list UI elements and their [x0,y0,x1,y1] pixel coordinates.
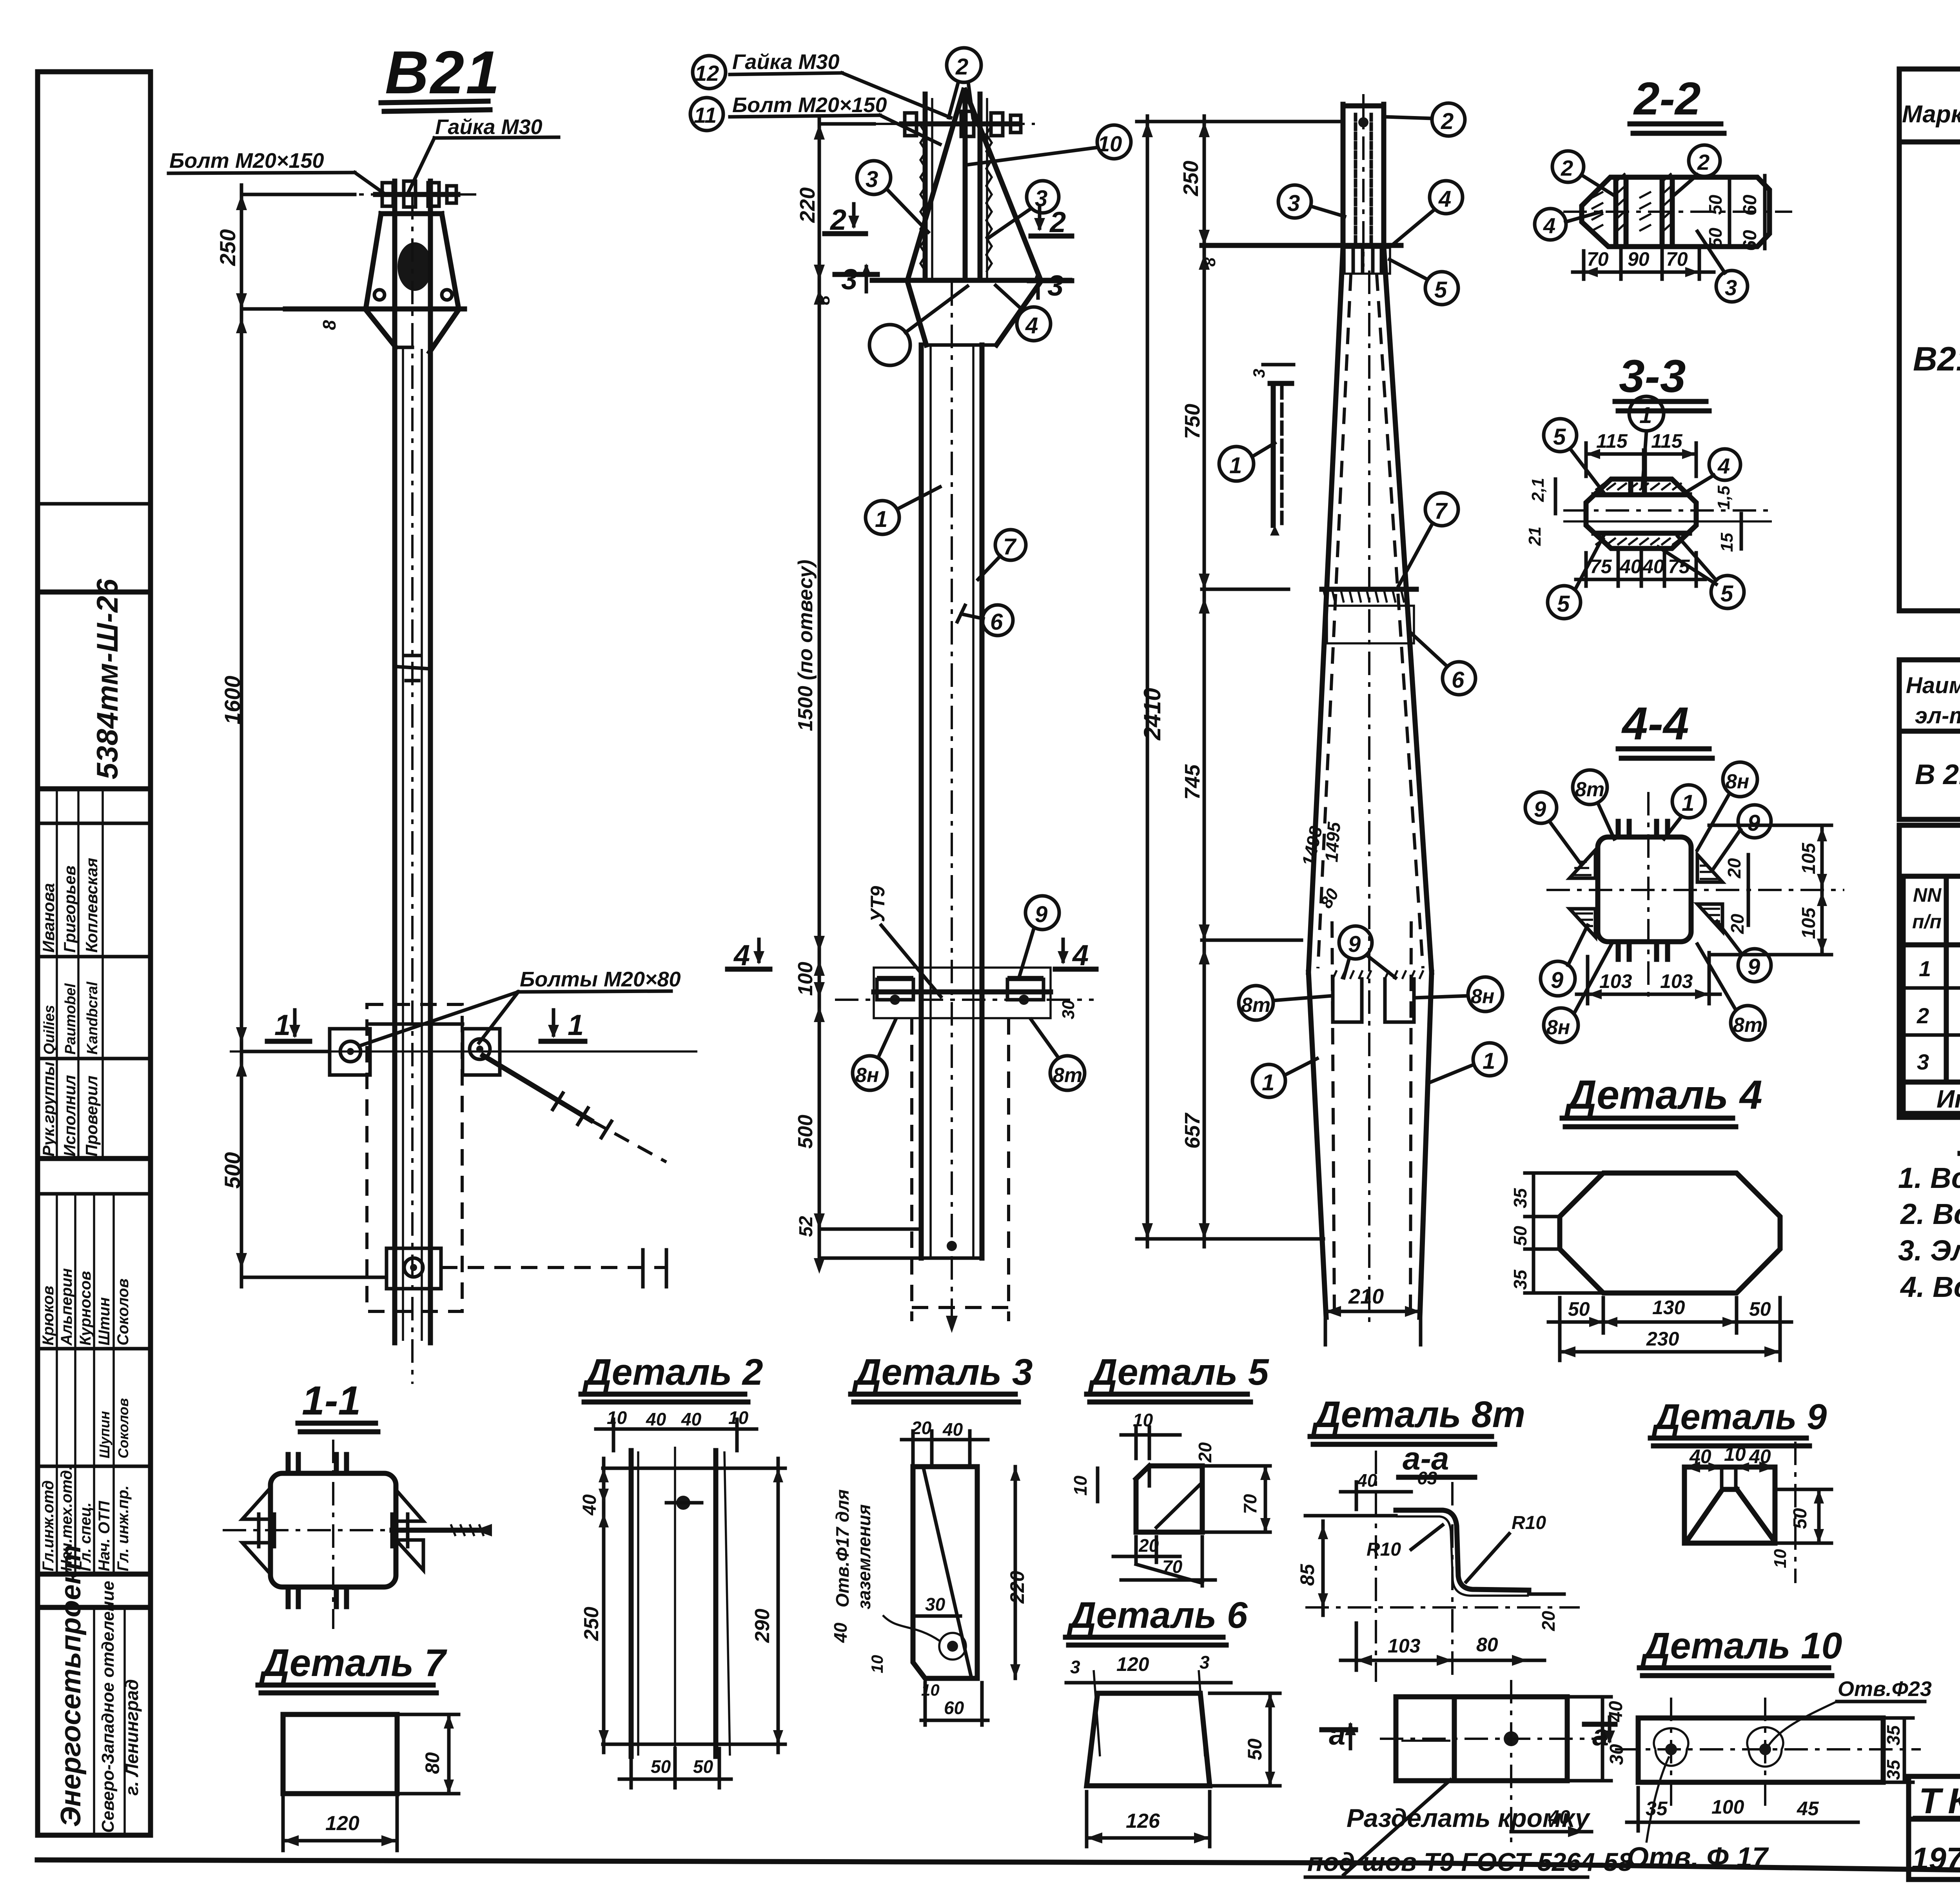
svg-text:Энергосетьпроект: Энергосетьпроект [55,1545,87,1827]
section 4-4 balloon 8т top [1573,770,1614,839]
detail1 side bar (tower3) [1250,365,1294,536]
svg-text:50: 50 [651,1756,671,1777]
svg-text:8н: 8н [1726,770,1749,793]
svg-text:1495: 1495 [1321,821,1344,863]
svg-text:50: 50 [1244,1738,1266,1760]
svg-text:Шупин: Шупин [96,1411,113,1458]
svg-text:1: 1 [875,507,887,532]
svg-text:657: 657 [1181,1112,1204,1149]
svg-text:50: 50 [1790,1508,1811,1529]
section 4-4 balloon 9 top-left [1525,792,1580,863]
tower2 mid bracket [835,968,1094,1019]
balloon 1 (tower2) [866,487,940,534]
svg-text:35: 35 [1510,1269,1530,1290]
title strip signature rows upper [39,858,101,1157]
section 4-4 balloon 9 right [1712,805,1771,870]
svg-text:40: 40 [1606,1701,1626,1722]
detail 2 bottom dims 50 50 [619,1749,731,1788]
detail 5 title [1087,1351,1269,1402]
tower2 dimension chain 220/8/1500/100/500/52 [794,116,921,1274]
svg-text:3: 3 [1047,269,1063,302]
svg-text:R10: R10 [1367,1539,1401,1560]
section 1-1 body (cross) [223,1440,492,1629]
svg-text:Соколов: Соколов [114,1278,132,1346]
svg-text:Деталь 5: Деталь 5 [1088,1351,1269,1393]
svg-text:Курносов: Курносов [77,1271,94,1346]
svg-text:8: 8 [1200,257,1219,267]
svg-text:220: 220 [1006,1571,1028,1604]
detail 8т dims [1296,1468,1564,1670]
svg-text:NN: NN [1913,884,1942,906]
svg-text:35: 35 [1883,1759,1904,1780]
tower3 mid brackets 8т 8н [1333,970,1423,1022]
svg-text:2: 2 [1561,156,1573,180]
section 2-2 dimensions 70 90 70 [1573,248,1714,279]
svg-text:100: 100 [1711,1796,1744,1818]
svg-text:2: 2 [1916,1003,1929,1028]
svg-text:Quilies: Quilies [41,1005,58,1055]
svg-text:3: 3 [1725,275,1737,300]
svg-text:Гайка М30: Гайка М30 [732,50,840,74]
svg-text:Иванова: Иванова [39,883,58,953]
title block frame [1909,1776,1960,1879]
svg-text:3: 3 [1200,1652,1210,1672]
svg-text:Разделать кромку: Разделать кромку [1347,1803,1591,1832]
detail 4 title [1562,1072,1762,1127]
tower2 lower dashed outline [912,1018,1009,1321]
svg-text:70: 70 [1587,248,1609,270]
section 2-2 body [1563,173,1792,247]
balloon 8н (tower2) [853,1019,896,1090]
balloon 8т (tower2) [1031,1019,1085,1090]
title strip organisation name [55,1545,142,1833]
detail 2 top dims 10 40 40 10 [596,1407,757,1451]
label Гайка М30 (tower 1) [408,115,559,192]
svg-text:эл-та: эл-та [1915,703,1960,728]
svg-text:г. Ленинград: г. Ленинград [122,1679,142,1796]
tower3 top horizontal member [1202,245,1401,274]
section 3-3 balloon 1 [1629,396,1664,486]
svg-text:9: 9 [1534,797,1546,821]
balloon 5 (tower3) [1390,260,1458,305]
svg-text:250: 250 [580,1607,603,1641]
svg-text:40: 40 [830,1622,851,1643]
svg-text:8т: 8т [1575,778,1604,801]
mounting bolts table content [1912,883,1960,1114]
svg-text:1: 1 [1262,1070,1274,1095]
svg-text:50: 50 [1510,1226,1530,1246]
svg-text:8н: 8н [1471,985,1494,1008]
svg-text:R10: R10 [1512,1513,1546,1533]
svg-text:210: 210 [1348,1285,1384,1308]
tower1 dimension chain 250/8/1600/500 [215,185,387,1287]
metal details table frame [1899,660,1960,819]
svg-text:8т: 8т [1241,994,1270,1017]
svg-text:130: 130 [1652,1297,1685,1318]
note 1 [1898,1162,1960,1194]
section 2-2 balloon 2 left [1552,151,1615,196]
tower1 section marker 1-down right [541,1009,585,1041]
svg-text:4: 4 [1717,454,1730,478]
svg-text:Болт М20×150: Болт М20×150 [732,93,887,117]
detail 2 left dims 40 250 [579,1458,609,1752]
svg-text:10: 10 [728,1407,749,1428]
svg-text:под шов Т9 ГОСТ 5264-58: под шов Т9 ГОСТ 5264-58 [1307,1847,1633,1876]
detail 5 dims [1070,1410,1270,1586]
svg-text:230: 230 [1646,1328,1679,1350]
svg-text:6: 6 [990,609,1003,635]
mounting bolts table frame [1903,876,1960,1113]
svg-text:105: 105 [1798,907,1819,939]
detail 6 title [1065,1594,1248,1645]
svg-text:Проверил: Проверил [82,1075,101,1157]
svg-text:50: 50 [1568,1298,1590,1320]
section 3-3 balloon 5 bottom-left [1548,536,1603,619]
svg-text:Штин: Штин [96,1297,113,1346]
svg-text:11: 11 [694,103,717,127]
svg-text:2: 2 [1697,150,1710,174]
svg-text:Крюков: Крюков [40,1286,57,1346]
svg-text:заземления: заземления [854,1504,874,1609]
svg-text:3: 3 [1070,1657,1080,1677]
svg-text:1: 1 [1919,956,1931,981]
svg-text:30: 30 [1059,1000,1078,1019]
balloon 9 (tower3) [1339,926,1396,978]
detail 9 dims [1684,1443,1831,1568]
title block TK stamp [1911,1781,1960,1876]
svg-text:7: 7 [1003,534,1017,559]
detail 3 body [832,1467,977,1678]
svg-text:10: 10 [607,1407,627,1428]
svg-text:90: 90 [1628,248,1650,270]
svg-text:В21: В21 [385,38,501,106]
detail 3 dims [830,1418,1028,1725]
svg-text:8н: 8н [1546,1016,1570,1039]
svg-text:Рук.группы: Рук.группы [39,1062,58,1157]
note 3 [1898,1234,1960,1267]
detail 8т weld note [1305,1780,1633,1877]
svg-text:Paumobel: Paumobel [62,983,79,1055]
svg-text:3: 3 [841,263,857,296]
svg-text:Деталь 9: Деталь 9 [1651,1397,1827,1437]
svg-text:1500 (по отвесу): 1500 (по отвесу) [794,559,817,731]
svg-text:9: 9 [1348,932,1361,957]
svg-text:40: 40 [1689,1445,1711,1467]
balloon 6 (tower2) [957,605,1013,636]
label Болты М20х80 (tower 1) [359,968,681,1046]
svg-text:Коплевская: Коплевская [82,858,101,953]
svg-text:220: 220 [796,187,819,223]
svg-text:8т: 8т [1733,1014,1762,1037]
balloon 10 (tower2) [968,125,1131,165]
section 3-3 body [1563,451,1772,548]
section 3-3 balloon 5 bottom-right [1658,536,1744,608]
svg-text:1: 1 [274,1009,290,1041]
svg-text:Гл.инж.отд: Гл.инж.отд [40,1480,57,1571]
svg-text:Соколов: Соколов [115,1398,131,1458]
section 2-2 title [1630,73,1724,133]
svg-text:40: 40 [942,1419,963,1440]
section 4-4 body [1546,792,1844,1004]
svg-text:Болт М20×150: Болт М20×150 [169,149,324,173]
tower1 mid bracket [230,1024,697,1162]
svg-text:Отв.Ф23: Отв.Ф23 [1838,1677,1932,1701]
section 2-2 balloon 4 [1535,209,1601,240]
svg-text:85: 85 [1296,1564,1318,1586]
tower3 tapered mast outline [1308,247,1432,1329]
section 3-3 side dims 21 / 15 [1525,478,1741,552]
svg-text:52: 52 [796,1216,817,1237]
svg-text:п/п: п/п [1912,911,1942,933]
svg-text:1600: 1600 [220,676,245,725]
detail 9 title [1650,1397,1827,1446]
svg-text:50: 50 [693,1756,713,1777]
drawing title B21 [381,38,501,111]
svg-text:60: 60 [1740,230,1760,251]
detail 10 title [1639,1625,1842,1676]
svg-text:500: 500 [220,1152,245,1189]
tower2 section marker 3 right [1029,269,1072,302]
tower1 dashed foundation outline [367,1004,462,1311]
tower3 top column [1343,94,1384,267]
svg-text:120: 120 [325,1812,359,1835]
detail 8т plan dims 40 30 40 [1511,1697,1627,1837]
svg-text:Деталь 8т: Деталь 8т [1311,1394,1525,1435]
svg-text:12: 12 [695,61,719,85]
svg-text:2,1: 2,1 [1528,478,1548,502]
section 4-4 balloon 8н bottom [1544,945,1611,1042]
svg-text:5: 5 [1434,277,1447,303]
svg-text:1-1: 1-1 [302,1378,361,1424]
svg-text:2-2: 2-2 [1633,73,1701,125]
balloon 4 (tower3) [1394,181,1463,244]
balloon 1 (tower3 side bar) [1219,443,1275,481]
svg-text:4. Все марки оцинковат: 4. Все марки оцинковать. [1900,1271,1960,1303]
tower2 top bolt assembly [874,111,1035,136]
tower3 dimension chain 250/8/750/745/657 [1179,116,1301,1247]
section 3-3 dimensions 75 40 40 75 [1576,553,1705,586]
svg-text:35: 35 [1510,1188,1530,1208]
svg-text:4: 4 [1543,213,1555,238]
section 3-3 balloon 5 top-left [1544,419,1603,492]
svg-text:70: 70 [1666,248,1688,270]
svg-text:3: 3 [1917,1050,1929,1074]
svg-text:115: 115 [1596,430,1628,452]
svg-text:Григорьев: Григорьев [60,866,79,953]
detail 4 bottom dims 50 130 50 230 [1548,1297,1791,1360]
tower1 pole [395,196,430,1384]
svg-text:3: 3 [1287,191,1300,216]
svg-text:3: 3 [866,167,878,192]
svg-text:70: 70 [1240,1494,1260,1514]
svg-text:745: 745 [1181,764,1204,800]
detail 8т plan view [1380,1680,1607,1843]
svg-text:3. Электроды типа Э42 , Г: 3. Электроды типа Э42 , ГОСТ 9467-60 . [1898,1234,1960,1267]
detail 3 title [851,1351,1033,1402]
svg-text:10: 10 [868,1655,886,1673]
detail 6 body [1087,1670,1210,1786]
svg-text:Наименов.: Наименов. [1906,673,1960,698]
tower1 top bolt assembly [286,181,476,207]
tower2 gusset [872,90,1070,345]
svg-text:35: 35 [1883,1725,1904,1745]
balloon 8н (tower3) [1415,977,1503,1011]
svg-text:20: 20 [1724,858,1744,879]
svg-text:Гл. инж.пр.: Гл. инж.пр. [114,1485,132,1571]
title strip frame [38,72,151,1835]
detail 2 title [581,1351,763,1402]
svg-text:1: 1 [568,1009,584,1041]
note 4 [1900,1271,1960,1303]
svg-text:60: 60 [944,1698,964,1718]
svg-text:9: 9 [1748,954,1760,980]
detail 5 body [1136,1466,1270,1532]
section 4-4 balloon 9 bottom-right [1717,921,1771,982]
svg-text:45: 45 [1797,1798,1819,1820]
svg-text:Деталь 2: Деталь 2 [582,1351,763,1393]
svg-text:2410: 2410 [1139,688,1165,741]
section 3-3 title [1615,350,1709,411]
svg-text:40: 40 [579,1494,600,1516]
svg-text:8н: 8н [855,1064,879,1087]
svg-text:80: 80 [421,1752,443,1774]
svg-text:30: 30 [1606,1744,1627,1765]
svg-text:Kandbcral: Kandbcral [84,981,101,1055]
svg-text:3: 3 [1250,369,1268,378]
svg-text:21: 21 [1525,527,1544,546]
svg-text:60: 60 [1740,194,1760,216]
svg-text:6: 6 [1452,667,1465,693]
svg-text:5384тм-Ш-26: 5384тм-Ш-26 [91,579,124,779]
svg-text:Отв.Ф17 для: Отв.Ф17 для [832,1489,853,1607]
section 3-3 balloon 4 [1682,449,1740,495]
svg-text:63: 63 [1417,1468,1437,1488]
svg-text:50: 50 [1705,194,1726,215]
section 4-4 dims 20 20 105 105 [1709,825,1831,955]
svg-text:2: 2 [955,54,968,80]
svg-text:5: 5 [1720,581,1733,607]
section 2-2 balloon 2 right [1673,145,1720,196]
note 2 [1900,1198,1960,1230]
svg-text:103: 103 [1388,1635,1421,1657]
detail 8т profile [1305,1451,1580,1682]
svg-text:5: 5 [1553,424,1566,450]
svg-text:100: 100 [794,962,817,996]
svg-text:50: 50 [1749,1298,1771,1320]
svg-text:4-4: 4-4 [1621,698,1689,750]
section label 1-1 [298,1378,378,1432]
svg-text:1: 1 [1229,453,1242,478]
tower3 taper labels 1498 1495 80 [1298,821,1344,912]
svg-text:8: 8 [814,295,833,305]
balloon 7 (tower2) [978,530,1026,579]
detail 2 body [603,1447,785,1760]
svg-text:В21: В21 [1913,340,1960,378]
svg-text:10: 10 [1098,131,1122,156]
svg-text:9: 9 [1035,902,1047,927]
svg-text:УТ9: УТ9 [867,886,889,922]
balloon 7 (tower3) [1399,493,1458,586]
balloon 2 (tower 2 top) [947,48,981,118]
detail 10 dims 35 100 45 / 35 35 [1627,1718,1913,1831]
svg-text:3-3: 3-3 [1619,350,1686,402]
metal details table content [1906,667,1960,816]
svg-text:Деталь 3: Деталь 3 [852,1351,1033,1393]
svg-text:Нач. ОТП: Нач. ОТП [96,1500,113,1571]
svg-text:40: 40 [1357,1470,1377,1491]
label Болт М20х150 (tower 1) [169,149,383,193]
empty balloon (tower2) [869,286,967,365]
section 4-4 balloon 9 bottom-left [1541,925,1588,996]
svg-text:35: 35 [1646,1798,1668,1820]
section 2-2 balloon 3 [1697,231,1748,302]
svg-text:250: 250 [215,229,240,266]
tower2 pole [921,282,982,1333]
tower3 splice joint [1322,589,1416,643]
svg-text:10: 10 [1070,1475,1091,1496]
svg-text:Итого на тросостойку: Итого на тросостойку [1936,1085,1960,1113]
tower1 bottom bracket [387,1248,666,1289]
svg-text:10: 10 [1724,1443,1746,1465]
svg-text:20: 20 [1727,913,1748,934]
svg-text:ТК: ТК [1919,1781,1960,1821]
svg-text:80: 80 [1476,1634,1498,1656]
svg-text:40: 40 [1619,556,1642,577]
svg-text:500: 500 [794,1115,817,1149]
balloon 1 right (tower3) [1429,1043,1506,1083]
page bottom border [37,1860,1960,1880]
balloon 2 (tower3) [1386,103,1465,136]
detail 8т plan marker а left [1322,1718,1356,1751]
svg-text:Северо-Западное отделение: Северо-Западное отделение [98,1581,118,1833]
svg-text:1. Все отверстия ф 21, к: 1. Все отверстия ф 21, кроме оговоренных… [1898,1162,1960,1194]
detail 2 right dim 290 [751,1458,783,1752]
svg-text:9: 9 [1551,968,1563,993]
title strip signature rows lower [40,1268,132,1571]
svg-text:105: 105 [1798,843,1819,874]
detail 10 body [1615,1698,1921,1807]
svg-text:Отв. Ф 17: Отв. Ф 17 [1627,1842,1769,1873]
balloon 6 (tower3) [1411,633,1475,695]
svg-text:20: 20 [911,1418,932,1438]
svg-text:9: 9 [1748,810,1760,836]
svg-text:20: 20 [1195,1442,1215,1463]
tower2 section marker 2 right [1031,206,1072,238]
detail 10 label Отв Ф17 [1627,1756,1769,1873]
svg-text:20: 20 [1538,1611,1559,1631]
detail 10 label Отв Ф23 [1769,1677,1932,1745]
section 4-4 balloon 1 [1664,785,1705,839]
svg-text:Исполнил: Исполнил [60,1075,79,1157]
parts table B21 mark and totals [1913,152,1960,452]
svg-text:103: 103 [1660,970,1693,992]
svg-text:1,5: 1,5 [1714,485,1733,510]
section 2-2 dimensions 50 50 / 60 60 [1705,176,1765,251]
balloon 3 (tower3) [1278,185,1345,218]
balloon 11 + label Болт М20х150 (tower 2) [690,93,940,144]
svg-text:40: 40 [681,1409,702,1429]
svg-text:4: 4 [1025,313,1038,338]
gusset bolt M30 [397,242,432,291]
svg-text:126: 126 [1126,1810,1160,1832]
svg-text:Деталь 7: Деталь 7 [259,1641,447,1684]
tower2 section marker 4 right [1055,939,1096,972]
parts table headers [1902,74,1960,140]
svg-text:10: 10 [1771,1549,1790,1568]
detail 8т title [1310,1394,1525,1477]
svg-text:Альперин: Альперин [58,1268,75,1346]
section 3-3 dimensions 115 115 [1586,430,1696,476]
